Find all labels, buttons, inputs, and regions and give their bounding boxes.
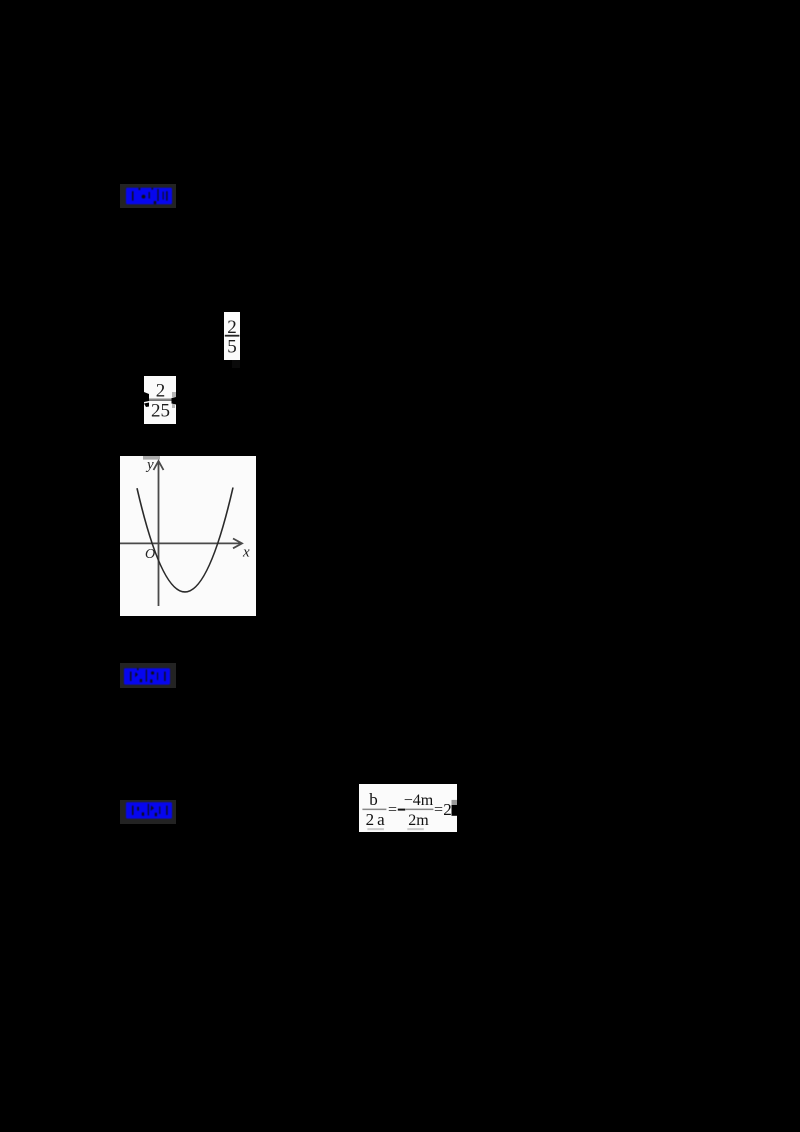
svg-text:y: y	[145, 457, 154, 473]
gray patch above clipped glyph	[452, 800, 458, 805]
x-axis arrowhead	[233, 539, 242, 549]
faint shadow below 2/5 box	[232, 360, 240, 368]
blue label 3 text 【解析】	[126, 802, 172, 819]
svg-text:x: x	[242, 545, 250, 561]
parabola curve	[137, 488, 233, 592]
label box 2 (dark background of 【分析】 tag)	[120, 663, 176, 688]
clipped black mark right of bar	[172, 397, 177, 405]
gray corner patches	[172, 392, 176, 397]
svg-text:−4m: −4m	[404, 792, 434, 809]
label box 1 (dark background of 【例】 tag)	[120, 184, 176, 208]
fraction image 2/25 (white equation box with clipped marks)	[144, 376, 176, 424]
fraction bar 2	[405, 809, 433, 811]
blue label 2 text 【分析】	[124, 668, 170, 685]
x-axis	[120, 542, 241, 544]
svg-text:=: =	[434, 802, 443, 819]
gray smudge top edge	[143, 456, 160, 460]
svg-text:2m: 2m	[408, 812, 429, 829]
graph image (white box with parabola)	[120, 456, 256, 616]
label box 3 (dark background of 【解析】 tag)	[120, 800, 176, 824]
svg-text:2a: 2a	[366, 810, 388, 829]
fraction image 2/5 (white equation box)	[224, 312, 240, 360]
svg-text:25: 25	[151, 401, 170, 422]
gray smudge bottom middle	[407, 828, 424, 830]
fraction bar (gray with dark underline)	[148, 398, 172, 399]
formula image b/2a = -(-4m/2m) = 2 (white equation box)	[359, 784, 457, 832]
minus sign	[398, 809, 405, 811]
gray smudge bottom left	[367, 828, 384, 830]
clipped black mark left of bar	[144, 392, 149, 402]
y-axis	[158, 461, 160, 606]
fraction bar	[225, 335, 240, 337]
y-axis arrowhead	[154, 461, 164, 470]
blue label 1 text 【例3】	[126, 187, 172, 205]
svg-text:5: 5	[227, 337, 237, 358]
svg-text:2: 2	[443, 800, 452, 819]
fraction bar 1	[362, 809, 386, 811]
clipped black glyph at right edge	[452, 805, 458, 816]
svg-text:2: 2	[227, 317, 237, 338]
svg-text:b: b	[369, 790, 378, 809]
svg-text:=: =	[388, 802, 397, 819]
